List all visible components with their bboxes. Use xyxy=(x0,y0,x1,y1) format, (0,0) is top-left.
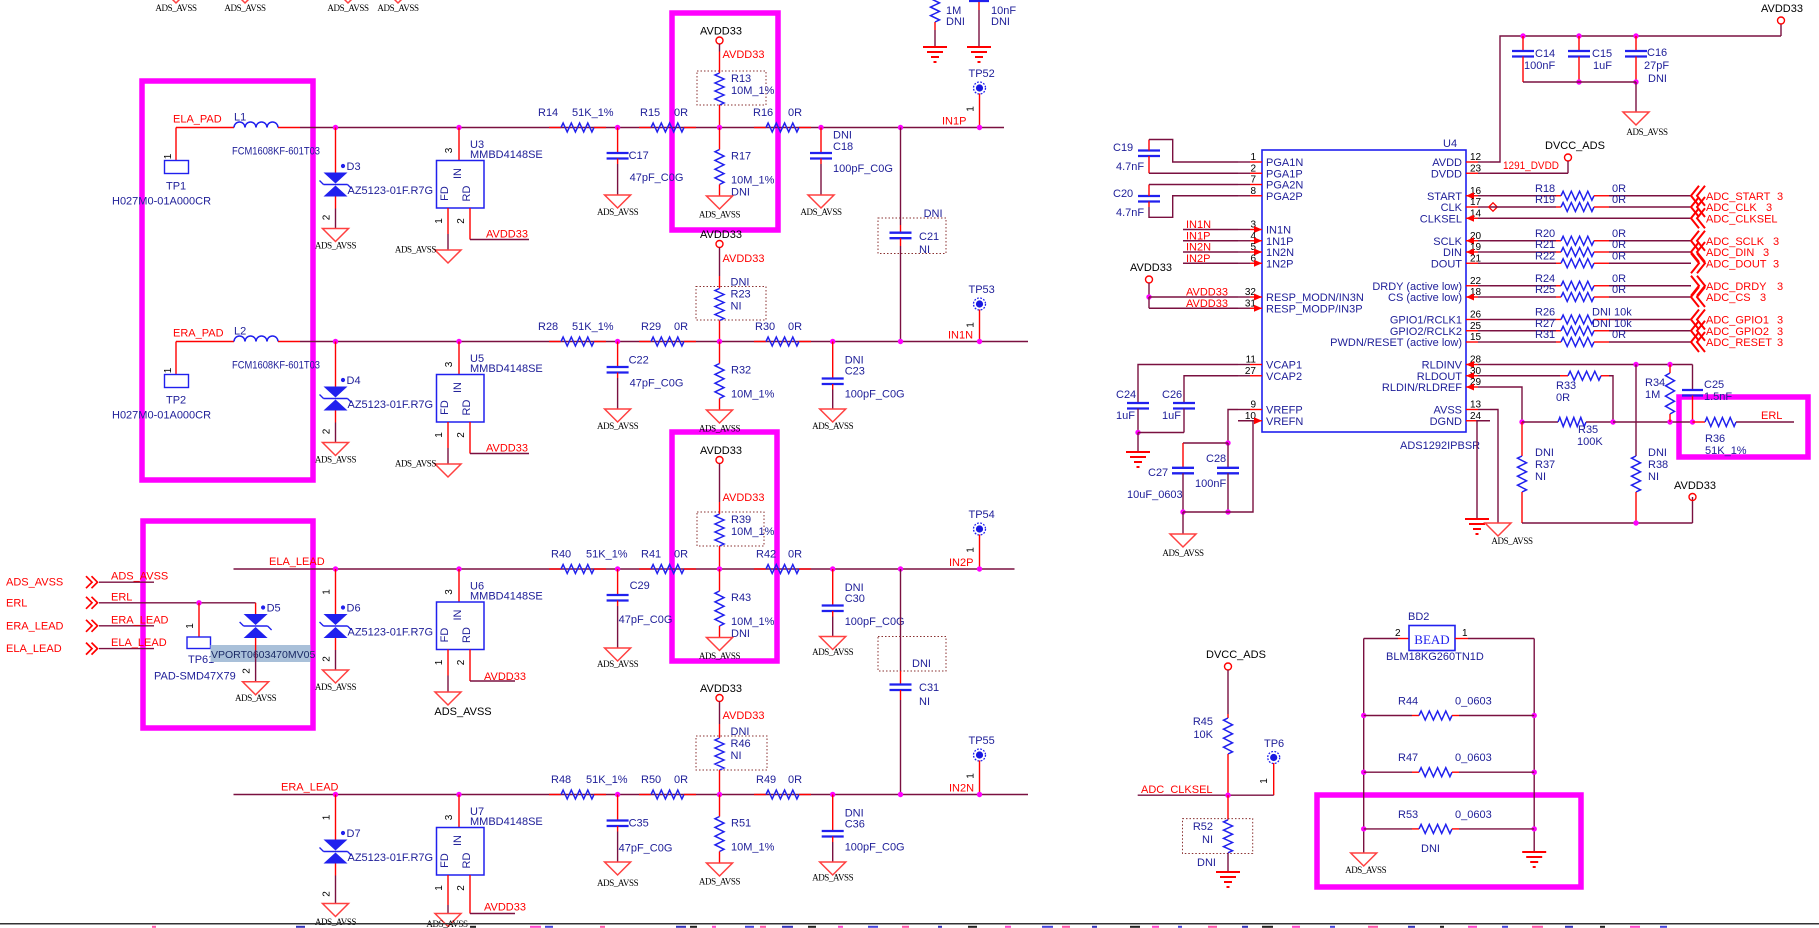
capacitor C23 xyxy=(822,339,905,409)
svg-text:VCAP2: VCAP2 xyxy=(1266,371,1302,383)
svg-text:0_0603: 0_0603 xyxy=(1455,752,1492,764)
svg-text:0R: 0R xyxy=(1612,329,1626,341)
svg-text:12: 12 xyxy=(1470,152,1482,163)
svg-text:GPIO1/RCLK1: GPIO1/RCLK1 xyxy=(1390,315,1462,327)
svg-text:ERA_PAD: ERA_PAD xyxy=(173,328,224,340)
svg-text:DNI: DNI xyxy=(731,277,750,289)
svg-text:AVDD33: AVDD33 xyxy=(723,710,765,722)
resistor R46 (pull-up) xyxy=(696,709,767,797)
inductor L2 xyxy=(232,326,320,372)
svg-text:C25: C25 xyxy=(1704,379,1724,391)
capacitor C22 xyxy=(607,339,684,409)
resistor R43 (to gnd) xyxy=(715,569,775,640)
svg-text:0R: 0R xyxy=(674,107,688,119)
svg-text:AVDD33: AVDD33 xyxy=(700,445,742,457)
svg-text:0R: 0R xyxy=(788,774,802,786)
svg-text:R46: R46 xyxy=(731,738,751,750)
svg-text:R48: R48 xyxy=(551,774,571,786)
resistor R29 xyxy=(639,321,696,346)
net label ELA_PAD xyxy=(173,114,222,126)
ground ADS_AVSS xyxy=(597,409,639,431)
net stub IN1N xyxy=(1183,219,1238,231)
svg-text:D4: D4 xyxy=(347,375,361,387)
svg-text:R21: R21 xyxy=(1535,239,1555,251)
svg-text:1: 1 xyxy=(185,623,196,629)
svg-text:AVDD: AVDD xyxy=(1432,157,1462,169)
svg-text:C28: C28 xyxy=(1206,453,1226,465)
wire IN1N rail xyxy=(300,341,1028,343)
capacitor C36 xyxy=(822,792,905,862)
svg-text:TP2: TP2 xyxy=(166,395,186,407)
svg-text:C24: C24 xyxy=(1116,389,1136,401)
wire bottom bus xyxy=(1522,497,1693,526)
svg-text:R53: R53 xyxy=(1398,809,1418,821)
U5 pin1 to ground xyxy=(434,422,448,464)
svg-text:1: 1 xyxy=(434,218,445,224)
svg-text:ERL: ERL xyxy=(111,591,132,603)
capacitor C26 xyxy=(1138,376,1238,433)
svg-text:47pF_C0G: 47pF_C0G xyxy=(619,843,673,855)
U6 pin2 to AVDD33 xyxy=(456,650,526,684)
U7 pin1 to ground xyxy=(434,875,448,914)
svg-text:2: 2 xyxy=(1250,163,1256,174)
svg-text:100nF: 100nF xyxy=(1195,478,1226,490)
net label ELA_LEAD xyxy=(269,556,325,568)
ground ADS_AVSS xyxy=(699,196,741,220)
svg-text:10M_1%: 10M_1% xyxy=(731,526,775,538)
svg-text:RLDIN/RLDREF: RLDIN/RLDREF xyxy=(1382,382,1462,394)
net ADC_CLKSEL xyxy=(1138,784,1274,798)
svg-text:R14: R14 xyxy=(538,107,558,119)
svg-text:ADS_AVSS: ADS_AVSS xyxy=(1345,865,1387,875)
resistor R45 xyxy=(1193,714,1233,795)
svg-text:ELA_LEAD: ELA_LEAD xyxy=(111,637,167,649)
resistor R19 / net ADC_CLK xyxy=(1490,194,1772,217)
svg-text:R32: R32 xyxy=(731,365,751,377)
svg-text:RD: RD xyxy=(461,853,473,869)
svg-text:51K_1%: 51K_1% xyxy=(572,321,614,333)
capacitor C29 xyxy=(607,566,673,648)
U3 pin1 to ground xyxy=(434,208,448,250)
svg-text:IN2N: IN2N xyxy=(1186,242,1211,254)
svg-text:IN1N: IN1N xyxy=(1186,219,1211,231)
resistor R39 (pull-up) xyxy=(697,471,775,572)
net label IN1N xyxy=(948,330,973,342)
svg-text:R34: R34 xyxy=(1645,377,1665,389)
ground ADS_AVSS xyxy=(315,904,357,928)
svg-text:3: 3 xyxy=(444,589,455,595)
resistor R14 xyxy=(538,107,614,132)
port ERA_LEAD xyxy=(6,614,169,632)
svg-text:3: 3 xyxy=(1773,258,1779,270)
svg-text:ADC_CLKSEL: ADC_CLKSEL xyxy=(1141,784,1213,796)
highlight box (R39/R43) xyxy=(672,432,777,661)
svg-text:CLK: CLK xyxy=(1441,202,1463,214)
svg-text:10M_1%: 10M_1% xyxy=(731,616,775,628)
svg-text:8: 8 xyxy=(1250,186,1256,197)
wire AVSS xyxy=(1490,410,1498,524)
svg-text:NI: NI xyxy=(731,301,742,313)
svg-text:1: 1 xyxy=(1462,628,1468,639)
resistor R25 / net ADC_CS xyxy=(1490,284,1766,307)
ground xyxy=(967,47,991,62)
svg-text:ADC_START: ADC_START xyxy=(1706,191,1771,203)
svg-text:DNI: DNI xyxy=(912,658,931,670)
svg-text:L1: L1 xyxy=(234,112,246,124)
ferrite bead BD2 xyxy=(1364,611,1535,663)
svg-text:11: 11 xyxy=(1246,355,1257,366)
U4 right pins xyxy=(1330,152,1490,428)
net stub IN2N xyxy=(1183,242,1238,254)
wire IN2P rail xyxy=(234,568,1015,570)
power AVDD33 (RESP) xyxy=(1130,262,1238,310)
svg-text:R52: R52 xyxy=(1193,821,1213,833)
svg-text:VREFN: VREFN xyxy=(1266,416,1303,428)
svg-text:AVDD33: AVDD33 xyxy=(700,26,742,38)
resistor R47 xyxy=(1361,752,1537,777)
svg-text:ADC_DOUT: ADC_DOUT xyxy=(1706,258,1767,270)
net ADC_CLKSEL xyxy=(1490,208,1778,228)
svg-text:AVDD33: AVDD33 xyxy=(1130,262,1172,274)
svg-text:4.7nF: 4.7nF xyxy=(1116,161,1144,173)
resistor R13 (pull-up) xyxy=(697,49,775,130)
svg-text:R42: R42 xyxy=(756,549,776,561)
resistor R40 xyxy=(549,549,628,574)
port ELA_LEAD xyxy=(6,637,167,655)
svg-text:ADS_AVSS: ADS_AVSS xyxy=(111,571,168,583)
svg-text:10uF_0603: 10uF_0603 xyxy=(1127,489,1183,501)
svg-text:C19: C19 xyxy=(1113,142,1133,154)
resistor R41 xyxy=(639,549,696,574)
ground ADS_AVSS xyxy=(597,195,639,217)
svg-text:ADS_AVSS: ADS_AVSS xyxy=(699,210,741,220)
svg-text:C18: C18 xyxy=(833,141,853,153)
test point TP61 xyxy=(154,600,236,682)
svg-text:TP54: TP54 xyxy=(969,509,995,521)
svg-text:26: 26 xyxy=(1470,310,1482,321)
svg-text:1: 1 xyxy=(1250,152,1256,163)
resistor R22 / net ADC_DOUT xyxy=(1490,250,1779,273)
ground ADS_AVSS xyxy=(315,443,357,465)
ground (cut at top edge) xyxy=(327,0,369,13)
ground ADS_AVSS xyxy=(699,863,741,887)
capacitor C31 (NI) xyxy=(878,566,946,797)
svg-text:3: 3 xyxy=(1760,292,1766,304)
svg-text:0R: 0R xyxy=(1612,284,1626,296)
svg-text:1: 1 xyxy=(966,773,977,779)
ground ADS_AVSS xyxy=(1485,523,1533,546)
svg-text:100K: 100K xyxy=(1577,436,1603,448)
svg-text:10M_1%: 10M_1% xyxy=(731,175,775,187)
svg-text:ERL: ERL xyxy=(6,597,27,609)
svg-text:4.7nF: 4.7nF xyxy=(1116,207,1144,219)
svg-text:ADC_GPIO1: ADC_GPIO1 xyxy=(1706,315,1769,327)
svg-text:RD: RD xyxy=(461,627,473,643)
resistor R34 xyxy=(1645,365,1675,423)
svg-text:PGA1N: PGA1N xyxy=(1266,157,1303,169)
svg-text:ADS_AVSS: ADS_AVSS xyxy=(812,647,854,657)
svg-text:R37: R37 xyxy=(1535,459,1555,471)
svg-text:DIN: DIN xyxy=(1443,247,1462,259)
capacitor C24 xyxy=(1116,365,1238,436)
svg-text:H027M0-01A000CR: H027M0-01A000CR xyxy=(112,410,211,422)
power AVDD33 xyxy=(1761,3,1803,24)
svg-text:R47: R47 xyxy=(1398,752,1418,764)
resistor R51 (to gnd) xyxy=(715,795,775,864)
power AVDD33 xyxy=(700,26,742,52)
wire right leg xyxy=(1533,639,1535,853)
capacitor C18 xyxy=(810,125,893,195)
ground ADS_AVSS xyxy=(699,638,741,662)
svg-text:ADS_AVSS: ADS_AVSS xyxy=(800,207,842,217)
resistor R48 xyxy=(549,774,628,799)
svg-text:DNI 10k: DNI 10k xyxy=(1592,318,1632,330)
resistor R32 (to gnd) xyxy=(715,342,775,411)
svg-text:ADS_AVSS: ADS_AVSS xyxy=(315,241,357,251)
net label IN2N xyxy=(949,783,974,795)
ground ADS_AVSS xyxy=(800,195,842,217)
ground ADS_AVSS xyxy=(434,692,491,718)
svg-text:AVDD33: AVDD33 xyxy=(1186,298,1228,310)
svg-text:R18: R18 xyxy=(1535,183,1555,195)
pin 17 CLK diamond xyxy=(1489,203,1497,211)
svg-text:R16: R16 xyxy=(753,107,773,119)
svg-text:IN: IN xyxy=(452,382,464,393)
svg-text:NI: NI xyxy=(1202,834,1213,846)
svg-text:AZ5123-01F.R7G: AZ5123-01F.R7G xyxy=(348,185,434,197)
svg-text:100pF_C0G: 100pF_C0G xyxy=(845,389,905,401)
U3 pin2 to AVDD33 xyxy=(456,208,529,241)
svg-text:C16: C16 xyxy=(1647,47,1667,59)
capacitor C27 xyxy=(1127,443,1228,515)
svg-text:ELA_LEAD: ELA_LEAD xyxy=(6,643,62,655)
svg-text:MMBD4148SE: MMBD4148SE xyxy=(470,149,543,161)
svg-text:0_0603: 0_0603 xyxy=(1455,809,1492,821)
svg-text:ADC_CS: ADC_CS xyxy=(1706,292,1751,304)
svg-text:C30: C30 xyxy=(845,593,865,605)
svg-text:ADS_AVSS: ADS_AVSS xyxy=(597,878,639,888)
net label ERA_LEAD xyxy=(281,782,339,794)
svg-text:IN: IN xyxy=(452,168,464,179)
U6 pin1 to ground xyxy=(434,650,448,693)
resistor R33 xyxy=(1490,371,1613,422)
svg-text:ADS_AVSS: ADS_AVSS xyxy=(1626,127,1668,137)
svg-text:R45: R45 xyxy=(1193,716,1213,728)
svg-text:PWDN/RESET (active low): PWDN/RESET (active low) xyxy=(1330,337,1462,349)
svg-text:3: 3 xyxy=(1777,326,1783,338)
svg-text:DNI: DNI xyxy=(924,208,943,220)
svg-text:1N1P: 1N1P xyxy=(1266,236,1294,248)
svg-text:ADS_AVSS: ADS_AVSS xyxy=(327,3,369,13)
ground ADS_AVSS xyxy=(597,648,639,669)
wire IN1P rail xyxy=(300,127,1004,129)
svg-text:27: 27 xyxy=(1245,366,1257,377)
svg-text:C23: C23 xyxy=(845,366,865,378)
power AVDD33 xyxy=(700,683,742,709)
svg-text:DNI: DNI xyxy=(731,628,750,640)
svg-text:ADC_GPIO2: ADC_GPIO2 xyxy=(1706,326,1769,338)
svg-text:3: 3 xyxy=(1777,337,1783,349)
svg-text:ERA_LEAD: ERA_LEAD xyxy=(111,614,169,626)
svg-text:IN2P: IN2P xyxy=(949,557,973,569)
svg-text:DNI: DNI xyxy=(1648,447,1667,459)
svg-text:1: 1 xyxy=(434,885,445,891)
svg-text:DNI: DNI xyxy=(1197,857,1216,869)
svg-text:ERA_LEAD: ERA_LEAD xyxy=(6,620,64,632)
svg-text:1uF: 1uF xyxy=(1162,410,1181,422)
svg-text:MMBD4148SE: MMBD4148SE xyxy=(470,816,543,828)
svg-text:R19: R19 xyxy=(1535,194,1555,206)
svg-text:100pF_C0G: 100pF_C0G xyxy=(845,616,905,628)
svg-text:U4: U4 xyxy=(1443,138,1457,150)
svg-text:RLDINV: RLDINV xyxy=(1422,360,1463,372)
svg-text:ADS_AVSS: ADS_AVSS xyxy=(315,917,357,927)
U4 left pins xyxy=(1238,152,1364,428)
svg-text:ADC_DIN: ADC_DIN xyxy=(1706,247,1754,259)
wire ELA_PAD xyxy=(176,127,234,129)
wire cap bus xyxy=(1523,82,1636,112)
svg-text:ADC_CLKSEL: ADC_CLKSEL xyxy=(1706,213,1778,225)
svg-text:BLM18KG260TN1D: BLM18KG260TN1D xyxy=(1386,651,1484,663)
svg-text:C36: C36 xyxy=(845,819,865,831)
diode array U6 xyxy=(437,566,543,649)
wire xyxy=(278,341,300,343)
svg-text:AVDD33: AVDD33 xyxy=(1761,3,1803,15)
svg-text:10M_1%: 10M_1% xyxy=(731,842,775,854)
svg-text:GPIO2/RCLK2: GPIO2/RCLK2 xyxy=(1390,326,1462,338)
svg-text:ADS_AVSS: ADS_AVSS xyxy=(395,245,437,255)
svg-text:C31: C31 xyxy=(919,682,939,694)
svg-text:ADS_AVSS: ADS_AVSS xyxy=(1491,536,1533,546)
svg-text:ADS_AVSS: ADS_AVSS xyxy=(315,455,357,465)
svg-text:ADS_AVSS: ADS_AVSS xyxy=(597,207,639,217)
TVS diode D5 xyxy=(211,603,316,682)
svg-text:2: 2 xyxy=(456,218,467,224)
net stub IN1P xyxy=(1183,230,1238,242)
svg-text:IN1P: IN1P xyxy=(1186,230,1210,242)
svg-text:C22: C22 xyxy=(629,355,649,367)
wire AVDD to AVDD33 xyxy=(1490,24,1781,162)
svg-text:0R: 0R xyxy=(1612,239,1626,251)
svg-text:C14: C14 xyxy=(1535,48,1555,60)
svg-text:SCLK: SCLK xyxy=(1433,236,1462,248)
wire IN2N rail xyxy=(234,794,1029,796)
svg-text:DNI: DNI xyxy=(991,16,1010,28)
wire RLDIN/RLDREF xyxy=(1490,387,1522,422)
svg-text:RD: RD xyxy=(461,400,473,416)
TVS diode D3 xyxy=(320,125,434,229)
resistor R26 / net ADC_GPIO1 xyxy=(1490,307,1783,330)
wire RLDINV xyxy=(1490,362,1693,367)
svg-text:AVDD33: AVDD33 xyxy=(723,492,765,504)
svg-text:R41: R41 xyxy=(641,549,661,561)
wire xyxy=(278,127,300,129)
ground (cut at top edge) xyxy=(224,0,266,13)
svg-text:DRDY (active low): DRDY (active low) xyxy=(1372,281,1462,293)
svg-text:1: 1 xyxy=(966,322,977,328)
svg-text:R50: R50 xyxy=(641,774,661,786)
svg-text:R20: R20 xyxy=(1535,228,1555,240)
ground ADS_AVSS xyxy=(395,245,461,264)
legend fragments (cut) xyxy=(152,926,1667,928)
capacitor C28 xyxy=(1195,410,1239,515)
svg-text:ADS_AVSS: ADS_AVSS xyxy=(395,459,437,469)
svg-text:DNI 10k: DNI 10k xyxy=(1592,307,1632,319)
svg-text:FD: FD xyxy=(439,186,451,201)
svg-text:PGA2P: PGA2P xyxy=(1266,191,1303,203)
svg-text:RD: RD xyxy=(461,186,473,202)
U7 pin2 to AVDD33 xyxy=(456,875,526,914)
resistor R30 xyxy=(754,321,811,346)
svg-text:R25: R25 xyxy=(1535,284,1555,296)
resistor R53 xyxy=(1361,809,1537,855)
svg-text:ELA_LEAD: ELA_LEAD xyxy=(269,556,325,568)
svg-text:AVSS: AVSS xyxy=(1433,405,1462,417)
svg-text:1.5nF: 1.5nF xyxy=(1704,391,1732,403)
svg-text:TP55: TP55 xyxy=(969,735,995,747)
diode array U3 xyxy=(437,125,543,208)
svg-text:3: 3 xyxy=(1777,281,1783,293)
resistor R18 / net ADC_START xyxy=(1490,183,1783,206)
svg-text:51K_1%: 51K_1% xyxy=(572,107,614,119)
svg-text:IN1N: IN1N xyxy=(1266,225,1291,237)
svg-text:NI: NI xyxy=(1535,471,1546,483)
net label ERA_PAD xyxy=(173,328,224,340)
svg-text:R15: R15 xyxy=(640,107,660,119)
svg-text:R23: R23 xyxy=(731,289,751,301)
svg-text:ADS_AVSS: ADS_AVSS xyxy=(235,693,277,703)
svg-text:R33: R33 xyxy=(1556,380,1576,392)
svg-text:IN: IN xyxy=(452,609,464,620)
svg-text:2: 2 xyxy=(456,885,467,891)
capacitor C15 xyxy=(1568,33,1612,84)
svg-text:VCAP1: VCAP1 xyxy=(1266,360,1302,372)
svg-text:AVDD33: AVDD33 xyxy=(700,683,742,695)
svg-text:BEAD: BEAD xyxy=(1414,632,1449,647)
svg-text:2: 2 xyxy=(242,668,253,674)
svg-text:R26: R26 xyxy=(1535,307,1555,319)
svg-text:1: 1 xyxy=(163,153,174,159)
svg-text:IN1P: IN1P xyxy=(942,116,966,128)
resistor R49 xyxy=(754,774,811,799)
svg-text:C21: C21 xyxy=(919,231,939,243)
svg-text:RESP_MODN/IN3N: RESP_MODN/IN3N xyxy=(1266,292,1364,304)
svg-text:0R: 0R xyxy=(788,549,802,561)
svg-text:C27: C27 xyxy=(1148,467,1168,479)
svg-text:1M: 1M xyxy=(1645,389,1660,401)
svg-text:DNI: DNI xyxy=(1421,843,1440,855)
capacitor C19 xyxy=(1113,140,1238,174)
highlight box (R13/R17) xyxy=(672,13,778,230)
svg-text:L2: L2 xyxy=(234,326,246,338)
ground xyxy=(923,47,947,62)
ground xyxy=(1126,433,1150,468)
capacitor C16 xyxy=(1625,33,1669,85)
svg-text:FD: FD xyxy=(439,853,451,868)
svg-text:47pF_C0G: 47pF_C0G xyxy=(619,614,673,626)
svg-text:27pF: 27pF xyxy=(1644,60,1669,72)
svg-text:DNI: DNI xyxy=(946,16,965,28)
svg-text:ADS_AVSS: ADS_AVSS xyxy=(597,421,639,431)
ground ADS_AVSS xyxy=(812,637,854,658)
test point TP53 xyxy=(966,284,995,344)
ground ADS_AVSS xyxy=(812,409,854,431)
svg-text:ADS_AVSS: ADS_AVSS xyxy=(812,421,854,431)
svg-text:VPORT0603470MV05: VPORT0603470MV05 xyxy=(211,649,315,661)
svg-text:22: 22 xyxy=(1470,276,1482,287)
ground ADS_AVSS xyxy=(426,914,468,928)
test point TP54 xyxy=(966,509,995,572)
